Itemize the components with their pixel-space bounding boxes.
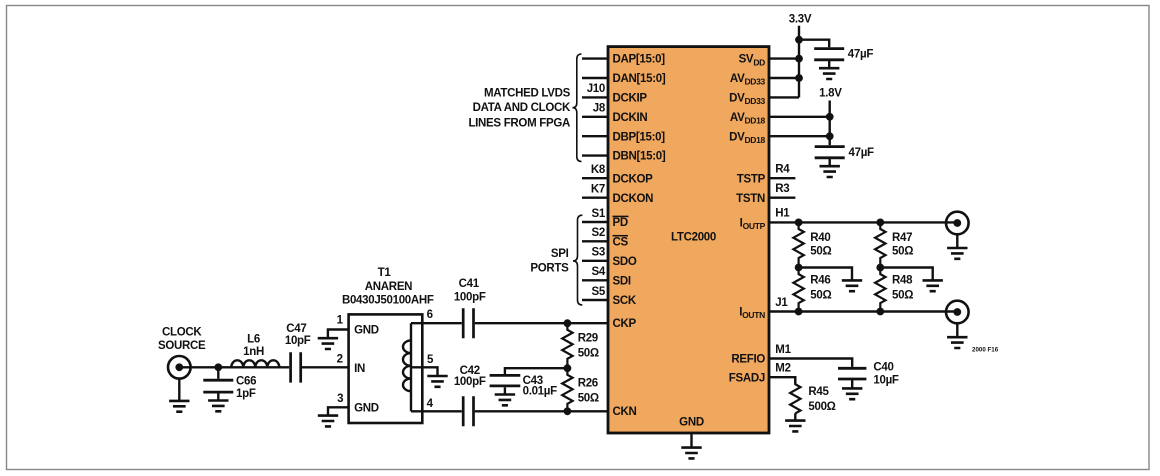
capacitor C47: [291, 352, 301, 382]
connector IOUTP output jack: [946, 212, 969, 235]
junction SVDD: [795, 55, 803, 63]
ground for capacitor C40: [842, 388, 862, 399]
wire stub TSTP: [769, 177, 795, 179]
svg-text:C47: C47: [286, 323, 306, 335]
svg-text:SDO: SDO: [613, 256, 637, 268]
svg-text:SPI: SPI: [551, 248, 569, 260]
wire CKN net: [475, 410, 608, 412]
junction clock C66: [214, 363, 222, 371]
svg-text:DBN[15:0]: DBN[15:0]: [613, 151, 666, 163]
resistor R48: [875, 268, 885, 312]
svg-text:R47: R47: [892, 232, 912, 244]
svg-text:R29: R29: [578, 332, 598, 344]
svg-text:DAN[15:0]: DAN[15:0]: [613, 73, 666, 85]
svg-text:R48: R48: [892, 274, 913, 286]
junction CKN R26: [564, 407, 572, 415]
svg-text:SOURCE: SOURCE: [158, 340, 206, 352]
svg-text:J10: J10: [587, 83, 605, 95]
wire stub pin DBP[15:0]: [582, 135, 608, 137]
ground clock jack: [169, 401, 189, 412]
wire T1 pin1 to ground: [328, 330, 349, 339]
wire IOUTP jack ground stub: [956, 234, 958, 248]
wire stub pin DCKIP: [582, 96, 608, 98]
svg-text:DCKON: DCKON: [613, 193, 654, 205]
wire T1 pin5 to ground: [411, 367, 438, 376]
svg-text:1: 1: [337, 315, 344, 327]
svg-text:4: 4: [427, 398, 434, 410]
svg-text:DCKIP: DCKIP: [613, 93, 648, 105]
wire R40-R46 tap to ground: [799, 268, 852, 281]
brace SPI ports group: [573, 215, 582, 305]
connector IOUTN output jack: [946, 301, 969, 324]
wire T1 pin3 to ground: [328, 407, 349, 415]
svg-text:TSTN: TSTN: [736, 193, 765, 205]
capacitor 47uF (3.3V): [814, 49, 844, 60]
ground T1 pin3: [318, 416, 338, 427]
wire FSADJ to R45: [769, 377, 795, 384]
svg-text:S4: S4: [592, 266, 606, 278]
junction AVDD33: [795, 74, 803, 82]
junction IOUTP R40: [795, 219, 803, 227]
wire AVDD33 to rail: [769, 77, 799, 79]
junction 3.3V branch: [795, 36, 803, 44]
wire stub pin DAP[15:0]: [582, 57, 608, 59]
wire C47 to T1 pin2: [302, 366, 349, 368]
svg-text:R4: R4: [775, 164, 790, 176]
svg-text:50Ω: 50Ω: [578, 393, 599, 405]
svg-text:CS: CS: [613, 236, 629, 248]
svg-text:J8: J8: [593, 103, 606, 115]
svg-text:T1: T1: [378, 267, 392, 279]
junction DVDD18: [826, 132, 834, 140]
ground IC GND: [681, 448, 701, 459]
resistor R45: [790, 378, 800, 414]
ground R47-R48 tap: [923, 280, 943, 291]
wire C66 stub: [217, 367, 219, 379]
svg-text:IN: IN: [354, 363, 365, 375]
ground T1 pin1: [318, 338, 338, 349]
svg-text:J1: J1: [775, 297, 788, 309]
wire stub TSTN: [769, 196, 795, 198]
junction CKP R29: [564, 319, 572, 327]
svg-text:R45: R45: [808, 386, 829, 398]
ground IOUTP jack: [947, 248, 967, 259]
wire clock jack ground stub: [178, 379, 180, 401]
svg-text:50Ω: 50Ω: [892, 289, 913, 301]
wire R45 to ground: [794, 413, 796, 420]
svg-text:B0430J50100AHF: B0430J50100AHF: [342, 295, 434, 307]
wire REFIO to C40: [769, 359, 852, 367]
svg-text:1pF: 1pF: [236, 388, 256, 400]
svg-text:3.3V: 3.3V: [789, 14, 812, 26]
svg-text:GND: GND: [354, 325, 379, 337]
capacitor C66: [203, 380, 233, 392]
svg-text:1nH: 1nH: [243, 346, 264, 358]
svg-text:2000 F16: 2000 F16: [972, 347, 999, 354]
capacitor C40: [838, 368, 866, 379]
wire stub pin DCKOP: [582, 177, 608, 179]
junction AVDD18: [826, 113, 834, 121]
svg-text:DATA AND CLOCK: DATA AND CLOCK: [473, 102, 571, 114]
inductor L6: [231, 360, 279, 367]
wire T1 pin6 to C41: [411, 322, 462, 324]
resistor R47: [875, 222, 885, 267]
svg-text:CKP: CKP: [613, 318, 637, 330]
ground for capacitor 47uF (3.3V): [819, 68, 839, 79]
svg-text:47µF: 47µF: [849, 147, 875, 159]
svg-text:10pF: 10pF: [285, 335, 311, 347]
svg-text:3: 3: [337, 393, 343, 405]
resistor R46: [793, 268, 803, 312]
svg-text:L6: L6: [247, 333, 260, 345]
svg-text:R40: R40: [810, 232, 830, 244]
svg-text:S1: S1: [592, 208, 606, 220]
wire 1.8V rail: [829, 101, 831, 146]
svg-text:REFIO: REFIO: [731, 354, 765, 366]
svg-text:47µF: 47µF: [848, 49, 874, 61]
wire IOUTN jack ground stub: [956, 323, 958, 337]
svg-text:100pF: 100pF: [454, 291, 486, 303]
ground C43: [495, 395, 515, 406]
svg-text:FSADJ: FSADJ: [729, 372, 765, 384]
wire stub pin DBN[15:0]: [582, 154, 608, 156]
svg-text:10µF: 10µF: [873, 375, 899, 387]
svg-text:K7: K7: [591, 184, 605, 196]
wire stub pin SDO: [582, 260, 608, 262]
junction IOUTN R46: [795, 308, 803, 316]
ground T1 pin5: [427, 376, 447, 387]
svg-text:500Ω: 500Ω: [808, 401, 835, 413]
svg-text:ANAREN: ANAREN: [365, 281, 412, 293]
IC U1 LTC2000 body: [608, 47, 769, 433]
svg-text:R26: R26: [578, 377, 598, 389]
resistor R26: [562, 368, 572, 411]
svg-text:GND: GND: [354, 402, 379, 414]
svg-text:DAP[15:0]: DAP[15:0]: [613, 54, 666, 66]
ground R40-R46 tap: [842, 280, 862, 291]
svg-text:50Ω: 50Ω: [810, 289, 831, 301]
svg-text:S2: S2: [592, 227, 605, 239]
svg-text:M2: M2: [775, 363, 790, 375]
svg-text:DBP[15:0]: DBP[15:0]: [613, 131, 666, 143]
svg-text:50Ω: 50Ω: [578, 347, 599, 359]
svg-text:DCKIN: DCKIN: [613, 112, 648, 124]
junction IOUTN R48: [876, 308, 884, 316]
wire stub pin PD: [582, 221, 608, 223]
connector clock source jack: [168, 356, 191, 379]
svg-text:R46: R46: [810, 274, 830, 286]
wire IC GND to ground: [690, 433, 692, 448]
svg-text:K8: K8: [591, 164, 606, 176]
wire C43 to ground: [504, 387, 506, 394]
wire clock to C47: [179, 366, 289, 368]
ground for capacitor 47uF (1.8V): [820, 166, 840, 177]
svg-text:1.8V: 1.8V: [819, 88, 842, 100]
svg-text:CLOCK: CLOCK: [162, 326, 202, 338]
wire stub pin CS: [582, 240, 608, 242]
svg-text:C41: C41: [459, 278, 480, 290]
svg-text:C40: C40: [873, 361, 893, 373]
svg-text:TSTP: TSTP: [737, 173, 766, 185]
svg-text:R3: R3: [775, 183, 789, 195]
wire IOUTN net: [769, 310, 957, 312]
wire stub pin DCKON: [582, 196, 608, 198]
ground IOUTN jack: [947, 337, 967, 348]
svg-text:50Ω: 50Ω: [810, 246, 831, 258]
junction R40 R46 mid: [795, 264, 803, 272]
transformer T1 body: [349, 314, 423, 423]
capacitor C42: [463, 396, 473, 426]
wire 3.3V branch to C: [799, 40, 829, 48]
svg-text:GND: GND: [679, 417, 704, 429]
brace LVDS group: [573, 54, 582, 162]
capacitor 47uF (1.8V): [815, 147, 845, 158]
svg-text:6: 6: [427, 309, 433, 321]
svg-text:DCKOP: DCKOP: [613, 173, 654, 185]
overline for PD: [613, 215, 629, 217]
svg-text:S5: S5: [592, 286, 606, 298]
wire stub pin SDI: [582, 279, 608, 281]
wire DVDD18 to rail: [769, 135, 830, 137]
wire mid tap to C43: [505, 368, 568, 374]
svg-text:PD: PD: [613, 217, 628, 229]
svg-text:CKN: CKN: [613, 406, 637, 418]
junction R47 R48 mid: [876, 264, 884, 272]
capacitor C41: [463, 308, 473, 338]
wire stub pin SCK: [582, 299, 608, 301]
svg-text:H1: H1: [775, 208, 790, 220]
svg-text:PORTS: PORTS: [530, 263, 569, 275]
wire SVDD to rail: [769, 57, 799, 59]
svg-text:0.01µF: 0.01µF: [523, 386, 558, 398]
svg-text:LTC2000: LTC2000: [671, 232, 716, 244]
ground R45: [785, 421, 805, 432]
svg-text:SDI: SDI: [613, 275, 631, 287]
junction R29 R26 mid: [564, 364, 572, 372]
wire stub pin DAN[15:0]: [582, 77, 608, 79]
wire 3.3V rail: [798, 26, 800, 98]
svg-text:M1: M1: [775, 344, 791, 356]
resistor R40: [793, 222, 803, 267]
svg-text:50Ω: 50Ω: [892, 246, 913, 258]
wire R47-R48 tap to ground: [880, 268, 932, 281]
svg-text:S3: S3: [592, 247, 605, 259]
wire CKP net: [475, 322, 608, 324]
svg-text:2: 2: [337, 353, 343, 365]
wire DVDD33 to rail: [769, 96, 799, 98]
capacitor C43: [490, 375, 521, 386]
svg-text:C42: C42: [460, 365, 480, 377]
overline for CS: [613, 235, 629, 237]
transformer T1 winding: [403, 323, 411, 411]
svg-text:5: 5: [427, 354, 434, 366]
ground for capacitor C66: [208, 401, 228, 412]
resistor R29: [562, 323, 572, 368]
wire stub pin DCKIN: [582, 116, 608, 118]
wire T1 pin4 to C42: [411, 410, 462, 412]
wire IOUTP net: [769, 221, 957, 223]
wire AVDD18 to rail: [769, 116, 830, 118]
svg-text:SCK: SCK: [613, 295, 637, 307]
svg-text:LINES FROM FPGA: LINES FROM FPGA: [468, 118, 570, 130]
svg-text:C66: C66: [236, 375, 256, 387]
svg-text:100pF: 100pF: [454, 376, 486, 388]
junction IOUTP R47: [876, 219, 884, 227]
svg-text:MATCHED LVDS: MATCHED LVDS: [484, 87, 571, 99]
